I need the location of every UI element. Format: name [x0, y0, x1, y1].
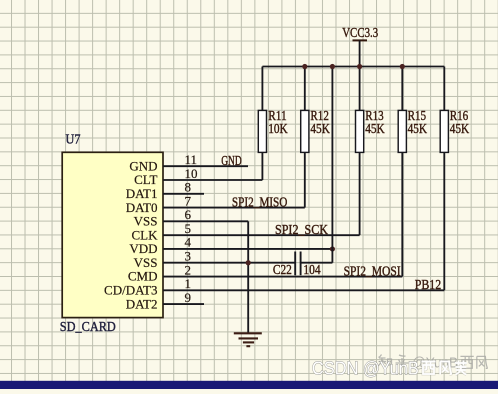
svg-text:45K: 45K: [365, 121, 385, 136]
wire R12 bottom riser: [304, 152, 306, 207]
svg-text:11: 11: [185, 152, 198, 167]
wire bus to R15 top: [401, 67, 403, 111]
svg-text:GND: GND: [221, 153, 242, 168]
wire pin7 SPI2_MISO: [204, 207, 305, 209]
wire bus to R16 top: [443, 67, 445, 111]
svg-text:SPI2_MISO: SPI2_MISO: [232, 194, 288, 209]
svg-text:8: 8: [185, 180, 192, 195]
svg-text:45K: 45K: [310, 121, 330, 136]
svg-text:GND: GND: [129, 158, 157, 173]
junction dot on VCC bus: [357, 64, 362, 69]
svg-text:CD/DAT3: CD/DAT3: [104, 283, 157, 298]
junction dot on VCC bus: [302, 64, 307, 69]
svg-text:VCC3.3: VCC3.3: [342, 25, 378, 40]
svg-text:U7: U7: [66, 132, 81, 147]
wire pin5 SPI2_SCK: [204, 234, 360, 236]
svg-text:DAT0: DAT0: [126, 200, 158, 215]
wire bus to R11 top: [261, 67, 263, 111]
junction dot VDD/VCC: [330, 246, 335, 251]
pin 2 stub: [163, 276, 204, 278]
pin 6 stub: [163, 220, 204, 222]
svg-text:1: 1: [185, 276, 192, 291]
resistor R13: [356, 110, 364, 152]
ground bar 3: [243, 341, 254, 343]
svg-text:VDD: VDD: [129, 241, 157, 256]
pin 11 stub: [163, 165, 204, 167]
wire bus to R12 top: [304, 67, 306, 111]
wire pin2 SPI2_MOSI: [204, 276, 402, 278]
wire pin3 VSS to C22 left: [204, 262, 295, 264]
svg-text:SPI2_MOSI: SPI2_MOSI: [344, 264, 401, 279]
wire pin6 VSS: [204, 220, 248, 222]
pin 8 stub: [163, 193, 204, 195]
svg-text:104: 104: [303, 262, 320, 277]
wire pin11 GND net: [204, 165, 248, 167]
wire pin4 VDD: [204, 248, 332, 250]
svg-text:7: 7: [185, 193, 192, 208]
junction dot on VCC bus: [400, 64, 405, 69]
resistor R16: [440, 110, 448, 152]
svg-text:CLK: CLK: [132, 227, 159, 242]
capacitor C22 plates: [294, 252, 296, 276]
pin 5 stub: [163, 234, 204, 236]
pin 4 stub: [163, 248, 204, 250]
svg-text:VSS: VSS: [134, 214, 158, 229]
wire C22 right to VCC drop: [301, 262, 333, 264]
wire VSS vertical to ground: [247, 221, 249, 333]
svg-text:10K: 10K: [268, 121, 288, 136]
wire R13 bottom riser: [359, 152, 361, 235]
svg-text:6: 6: [185, 207, 192, 222]
wire VCC bus horizontal: [262, 66, 444, 68]
ground bar 4: [246, 345, 250, 347]
wire bus to R13 top: [359, 67, 361, 111]
wire pin1 PB12: [204, 289, 444, 291]
ground bar 2: [239, 337, 259, 339]
ground bar 1: [234, 332, 262, 334]
svg-text:DAT1: DAT1: [126, 186, 158, 201]
svg-text:CSDN @YunB: CSDN @YunB: [312, 359, 419, 379]
resistor R11: [258, 110, 266, 152]
svg-text:45K: 45K: [450, 121, 470, 136]
svg-text:VSS: VSS: [134, 255, 158, 270]
wire R15 bottom riser: [401, 152, 403, 276]
svg-text:45K: 45K: [408, 121, 428, 136]
pin 7 stub: [163, 207, 204, 209]
bottom navy bar: [0, 381, 498, 389]
wire R11 bottom riser: [261, 152, 263, 180]
svg-text:SPI2_SCK: SPI2_SCK: [275, 222, 328, 237]
junction dot VSS/ground node: [246, 260, 251, 265]
pin 9 stub: [163, 303, 204, 305]
wire pin10 to R11: [204, 179, 262, 181]
svg-text:3: 3: [185, 249, 192, 264]
svg-text:C22: C22: [273, 262, 292, 277]
svg-text:4: 4: [185, 235, 192, 250]
svg-text:CLT: CLT: [134, 172, 157, 187]
svg-text:10: 10: [185, 166, 198, 181]
svg-text:PB12: PB12: [415, 277, 442, 292]
svg-text:CMD: CMD: [128, 269, 158, 284]
wire R16 bottom riser: [443, 152, 445, 290]
svg-text:9: 9: [185, 290, 192, 305]
power symbol VCC3.3 bar: [353, 39, 368, 41]
resistor R15: [398, 110, 406, 152]
pin 1 stub: [163, 289, 204, 291]
watermark gray text layer: [378, 355, 392, 367]
svg-text:5: 5: [185, 221, 192, 236]
IC U7 SD_CARD component body: [62, 152, 163, 317]
svg-text:SD_CARD: SD_CARD: [60, 319, 116, 334]
pin 10 stub: [163, 179, 204, 181]
junction dot on VCC bus: [330, 64, 335, 69]
wire bus down to VDD/C22 node: [331, 67, 333, 263]
resistor R12: [301, 110, 309, 152]
power symbol stem: [359, 40, 361, 66]
svg-text:2: 2: [185, 262, 192, 277]
pin 3 stub: [163, 262, 204, 264]
svg-text:DAT2: DAT2: [126, 296, 158, 311]
